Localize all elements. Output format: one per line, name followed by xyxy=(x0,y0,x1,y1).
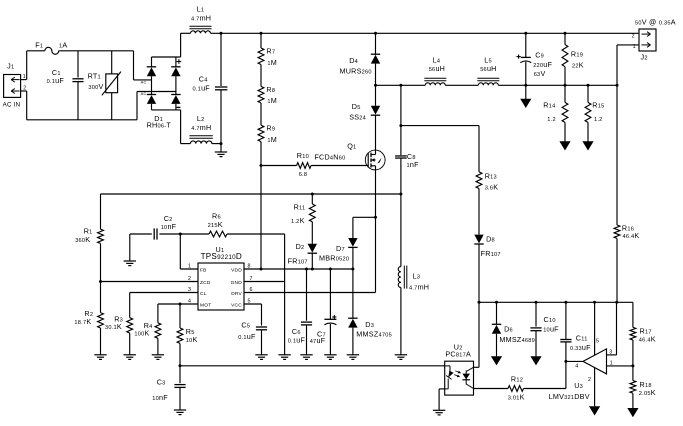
junction L2-C4 xyxy=(220,142,223,145)
capacitor C5 xyxy=(238,304,267,355)
ground under C4 xyxy=(215,152,227,157)
wire CL pin3 xyxy=(130,292,198,294)
resistor R4 xyxy=(134,304,160,355)
J1 pin 1 label xyxy=(23,74,26,80)
bridge - mark xyxy=(177,106,181,108)
capacitor C8 xyxy=(395,152,419,169)
svg-text:1.2: 1.2 xyxy=(594,117,603,123)
op-amp U1 TPS92210 box xyxy=(198,245,244,310)
svg-text:1: 1 xyxy=(610,360,613,366)
svg-text:AC: AC xyxy=(141,80,147,85)
inductor L3 xyxy=(398,266,429,355)
U3 pin 3 label xyxy=(609,350,612,356)
resistor R1 xyxy=(75,194,103,282)
junction C9 top xyxy=(524,32,527,35)
svg-text:2: 2 xyxy=(588,377,591,383)
junction R1 bottom xyxy=(99,280,102,283)
J2 pin 2 label xyxy=(632,34,635,40)
transistor Q1 xyxy=(314,141,385,170)
capacitor C6 xyxy=(288,269,312,355)
resistor R9 xyxy=(258,103,277,144)
junction D7 bottom xyxy=(351,268,354,271)
resistor R12 xyxy=(508,374,566,401)
svg-text:DRV: DRV xyxy=(231,291,242,297)
wire 1M string down to VDD xyxy=(260,166,262,270)
junction D7 source xyxy=(374,216,377,219)
junction C2-FB xyxy=(179,233,182,236)
junction D6 top xyxy=(495,301,498,304)
junction R9-R10 xyxy=(260,164,263,167)
junction R11 top xyxy=(311,193,314,196)
U1 pin 1 FB xyxy=(188,264,207,274)
junction snubber top xyxy=(399,84,402,87)
junction C7 top xyxy=(329,268,332,271)
capacitor C7 xyxy=(310,269,337,355)
junction D2 bottom xyxy=(311,268,314,271)
resistor R18 xyxy=(630,366,656,408)
U1 pin 6 DRV xyxy=(231,287,253,297)
junction J2 rail xyxy=(616,84,619,87)
ground under L3 xyxy=(395,355,407,360)
resistor R13 xyxy=(476,126,498,192)
junction R13 wire xyxy=(399,124,402,127)
svg-text:1: 1 xyxy=(188,264,191,270)
varistor RT1 xyxy=(88,51,121,120)
wire R6 to gnd drop xyxy=(284,234,286,355)
resistor R17 xyxy=(630,302,656,366)
wire U2 collector xyxy=(474,302,480,367)
ground under C5 xyxy=(255,355,267,360)
svg-text:VDD: VDD xyxy=(231,267,242,273)
U3 pin 5 label xyxy=(596,338,599,344)
junction U3 pin5 rail xyxy=(593,301,596,304)
junction C6 top xyxy=(305,268,308,271)
wire U2 cathode to ground xyxy=(439,389,445,410)
wire DRV pin6 xyxy=(244,292,376,294)
wire U3 in+ xyxy=(607,302,617,355)
wire J1 pin1 to fuse xyxy=(21,51,45,80)
junction C9 rail xyxy=(524,84,527,87)
resistor R16 xyxy=(614,85,639,302)
diode D4 xyxy=(340,33,381,85)
resistor R7 xyxy=(258,33,277,67)
ground under R2 xyxy=(94,355,106,360)
ground arrow under C9 xyxy=(520,85,531,108)
wire U3 gnd pin2 xyxy=(594,368,596,407)
resistor R10 xyxy=(261,151,311,178)
wire U2 emitter xyxy=(474,388,509,390)
wire ZCD pin2 xyxy=(101,281,199,283)
resistor R11 xyxy=(291,194,315,225)
svg-text:FB: FB xyxy=(200,267,207,273)
wire output rail xyxy=(498,84,617,86)
resistor R2 xyxy=(74,282,103,355)
resistor R14 xyxy=(543,85,568,123)
label AC1 xyxy=(141,80,147,85)
resistor R6 xyxy=(208,212,285,237)
wire VDD pin8 xyxy=(244,268,353,270)
inductor L1 xyxy=(190,5,212,34)
svg-text:2: 2 xyxy=(632,34,635,40)
wire VCC pin5 xyxy=(244,303,262,305)
ground under R4 xyxy=(152,355,164,360)
label Q1 gate wire xyxy=(311,165,368,167)
ground arrow under C10 xyxy=(530,356,541,365)
ground arrow under R15 xyxy=(582,122,593,150)
svg-text:1.2: 1.2 xyxy=(547,117,556,123)
wire ZCD sense xyxy=(101,193,401,195)
wire U3 supply pin5 xyxy=(594,302,596,355)
U1 pin 3 CL xyxy=(188,287,207,297)
capacitor C3 xyxy=(152,366,185,410)
resistor R3 xyxy=(105,293,133,355)
ground arrow under R18 xyxy=(627,408,638,417)
ground under C3 xyxy=(174,410,186,415)
fuse F1 xyxy=(35,40,67,54)
inductor L2 xyxy=(181,114,221,144)
wire U3 output xyxy=(607,365,633,367)
capacitor C1 xyxy=(47,51,84,120)
wire U3 inverting xyxy=(566,360,583,362)
U1 pin 7 GND xyxy=(231,276,253,286)
ground under C7 xyxy=(324,355,336,360)
resistor R8 xyxy=(258,65,277,106)
label D1 xyxy=(147,114,172,129)
resistor R5 xyxy=(177,304,197,366)
wire MOT pin4 xyxy=(158,303,198,305)
ground under C6 xyxy=(300,355,312,360)
resistor R15 xyxy=(585,85,604,123)
C7 plus mark xyxy=(332,315,336,319)
junction R17-R18 xyxy=(631,364,634,367)
inductor L4 xyxy=(376,56,447,86)
U3 pin 4 label xyxy=(575,363,578,369)
op-amp U3 LMV321 xyxy=(549,349,607,401)
junction C11 top xyxy=(564,301,567,304)
connector J2 xyxy=(635,17,676,61)
wire FB drop xyxy=(180,234,198,269)
capacitor C4 xyxy=(193,33,228,152)
bridge rectifier D1 xyxy=(147,33,181,143)
ground arrow under U3 xyxy=(589,406,600,415)
junction R15 top xyxy=(587,84,590,87)
svg-text:MOT: MOT xyxy=(200,302,211,308)
wire right rail xyxy=(479,301,633,303)
junction R19 bottom xyxy=(564,84,567,87)
wire J2 pin1 xyxy=(617,45,639,85)
junction R7 top xyxy=(260,32,263,35)
wire R9 to gate node xyxy=(260,142,262,166)
junction rail left xyxy=(478,301,481,304)
C9 plus mark xyxy=(517,55,521,59)
wire J1 pin2 bottom xyxy=(21,91,137,120)
svg-text:4: 4 xyxy=(575,363,578,369)
U1 pin 2 ZCD xyxy=(188,276,211,286)
ground under R3 xyxy=(124,355,136,360)
inductor L5 xyxy=(445,56,499,86)
bridge + mark xyxy=(177,59,182,64)
svg-text:TPS92210D: TPS92210D xyxy=(201,252,242,261)
zener D6 xyxy=(492,302,535,356)
junction R5 bottom xyxy=(179,364,182,367)
svg-text:AC IN: AC IN xyxy=(3,101,21,108)
junction C10 top xyxy=(535,301,538,304)
ground under U2 xyxy=(433,410,445,415)
U1 pin 8 VDD xyxy=(231,264,251,274)
wire fuse to AC node xyxy=(59,50,134,52)
diode D8 xyxy=(474,189,501,303)
svg-text:6.8: 6.8 xyxy=(299,172,308,178)
ground under R6 drop xyxy=(278,355,290,360)
ground arrow under D6 xyxy=(491,356,502,365)
wire D7 to Q1 source xyxy=(353,216,376,218)
wire AC2 xyxy=(137,92,176,120)
optocoupler U2 PC817A xyxy=(445,343,474,396)
svg-text:VCC: VCC xyxy=(231,302,242,308)
capacitor C10 xyxy=(530,302,559,356)
wire ground bus xyxy=(180,365,445,367)
wire AC1 xyxy=(134,51,152,80)
capacitor C11 xyxy=(560,302,591,388)
ground under C2 xyxy=(124,234,136,266)
wire snubber vertical xyxy=(400,85,402,266)
svg-text:3: 3 xyxy=(609,350,612,356)
ground arrow under R14 xyxy=(559,122,570,150)
wire top rail xyxy=(181,32,639,34)
diode D5 xyxy=(349,85,380,150)
junction R19 top xyxy=(564,32,567,35)
svg-text:5: 5 xyxy=(596,338,599,344)
J2 pin 1 label xyxy=(633,44,636,50)
svg-text:AC: AC xyxy=(141,91,147,96)
diode D2 xyxy=(288,222,317,269)
junction C11 inv xyxy=(564,360,567,363)
label AC2 xyxy=(141,91,147,96)
capacitor C9 xyxy=(520,33,552,85)
wire bus to U2 anode xyxy=(444,365,446,367)
junction C4 top xyxy=(220,32,223,35)
U3 pin 2 label xyxy=(588,377,591,383)
junction D4 top xyxy=(374,32,377,35)
J1 pin 2 label xyxy=(23,85,26,91)
U1 pin 5 VCC xyxy=(231,299,251,309)
svg-text:ZCD: ZCD xyxy=(200,280,211,286)
wire to R13 xyxy=(401,125,479,127)
U3 pin 1 label xyxy=(610,360,613,366)
junction R5 top xyxy=(179,303,182,306)
resistor R19 xyxy=(562,33,584,85)
connector J1 xyxy=(3,61,21,108)
diode D7 xyxy=(319,217,358,269)
wire Q1 source down xyxy=(375,170,377,293)
svg-text:CL: CL xyxy=(200,291,207,297)
zener D3 xyxy=(348,269,392,355)
junction D4-D5 node xyxy=(374,84,377,87)
junction string-VDD xyxy=(260,268,263,271)
ground under D3 xyxy=(347,355,359,360)
U1 pin 4 MOT xyxy=(188,299,211,309)
wire GND pin7 xyxy=(244,281,285,283)
capacitor C2 xyxy=(130,214,209,240)
junction U3 vcc rail xyxy=(615,301,618,304)
svg-text:GND: GND xyxy=(231,280,243,286)
junction sense right xyxy=(399,193,402,196)
junction R6gnd cross xyxy=(0,0,1,1)
